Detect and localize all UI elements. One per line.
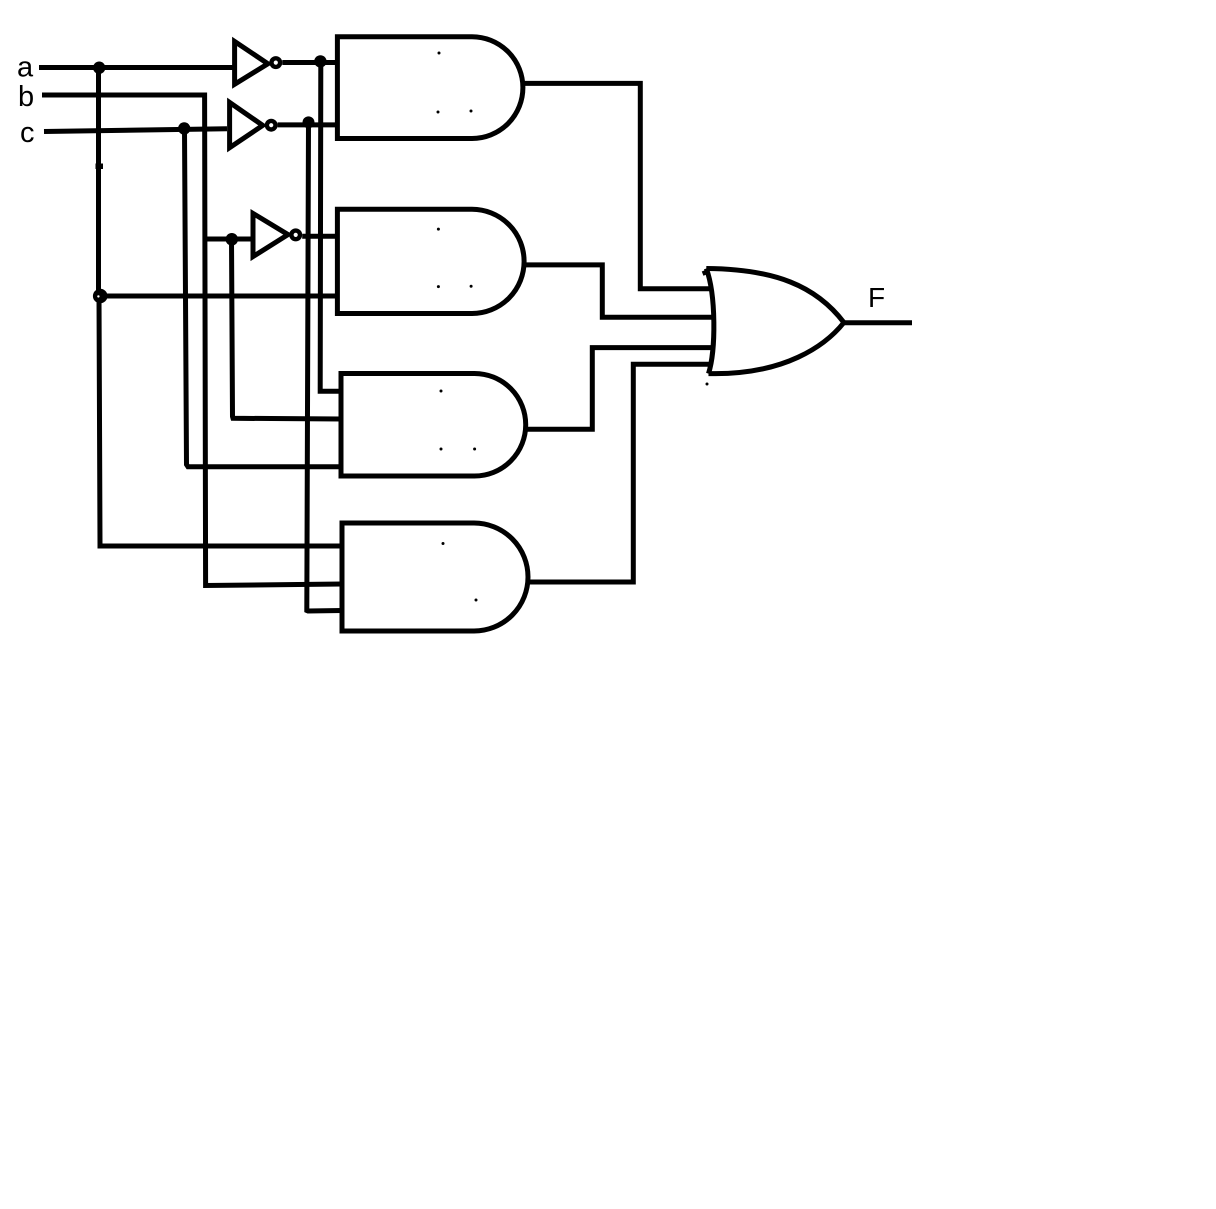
wire U1 output (a-bar) to AND1 top input bbox=[282, 60, 337, 65]
and-gate AND2 bbox=[337, 209, 524, 313]
inverter U1 bubble bbox=[272, 58, 281, 67]
wire b tap to inverter U3 input bbox=[205, 237, 252, 242]
node a junction dot bbox=[93, 61, 105, 73]
stray speck marks inside AND1 bbox=[437, 52, 473, 114]
or-gate OR1 corner tail artifact bbox=[703, 271, 709, 273]
wire U2 output (c-bar) to AND1 bottom input bbox=[278, 122, 337, 127]
svg-text:F: F bbox=[868, 282, 885, 313]
wire b lead-in, vertical, to AND4 second input bbox=[42, 95, 342, 586]
and-gate AND4 bbox=[342, 523, 528, 631]
wire c-bar vertical to AND4 bottom input bbox=[307, 123, 342, 611]
stray speck marks inside AND2 bbox=[437, 228, 473, 289]
or-gate OR1 left concave edge bbox=[706, 269, 714, 374]
and-gate AND3 bbox=[341, 374, 526, 477]
wire AND3 output to OR input 3 bbox=[525, 348, 715, 430]
node c junction dot bbox=[178, 122, 190, 134]
wire c branch down to AND3 bottom input bbox=[185, 130, 342, 467]
wire OR output to F bbox=[844, 320, 912, 325]
node b junction dot on U3 input bbox=[226, 233, 239, 246]
wire AND4 output to OR input 4 bbox=[526, 364, 713, 582]
svg-text:c: c bbox=[20, 117, 35, 149]
wire a-bar vertical to AND3 top input bbox=[320, 62, 341, 392]
node a lower junction dot pinhole bbox=[97, 295, 99, 297]
inverter U3 bubble bbox=[291, 231, 300, 240]
node a-bar junction dot bbox=[314, 55, 326, 67]
svg-text:b: b bbox=[18, 81, 34, 113]
inverter U2 bubble bbox=[267, 121, 276, 130]
inverter U1 triangle bbox=[235, 41, 268, 84]
node c-bar junction dot bbox=[303, 116, 315, 128]
and-gate AND1 bbox=[337, 37, 523, 139]
inverter U3 triangle bbox=[253, 213, 288, 256]
node a lower junction dot bbox=[93, 289, 108, 304]
wire a vertical upper segment bbox=[96, 68, 101, 297]
wire AND2 output to OR input 2 bbox=[522, 265, 715, 317]
stray speck marks inside AND3 bbox=[440, 390, 477, 451]
inverter U2 triangle bbox=[230, 102, 263, 147]
wire a to AND2 lower input bbox=[99, 294, 338, 299]
wire blob artifact on a vertical bbox=[96, 164, 104, 170]
wire b branch down to AND3 middle input bbox=[232, 239, 342, 419]
stray speck marks inside AND4 bbox=[442, 542, 478, 602]
stray speck below OR gate bbox=[706, 383, 709, 386]
or-gate OR1 top curve bbox=[706, 269, 844, 323]
wire a lead-in to inverter U1 bbox=[39, 65, 236, 70]
wire U3 output (b-bar) to AND2 top input bbox=[302, 234, 337, 239]
wire AND1 output to OR input 1 bbox=[521, 83, 713, 288]
svg-text:a: a bbox=[17, 52, 34, 84]
wire c lead-in to inverter U2 bbox=[44, 129, 227, 132]
or-gate OR1 bottom curve bbox=[709, 323, 844, 374]
wire a vertical lower segment to AND4 first input bbox=[99, 296, 342, 546]
